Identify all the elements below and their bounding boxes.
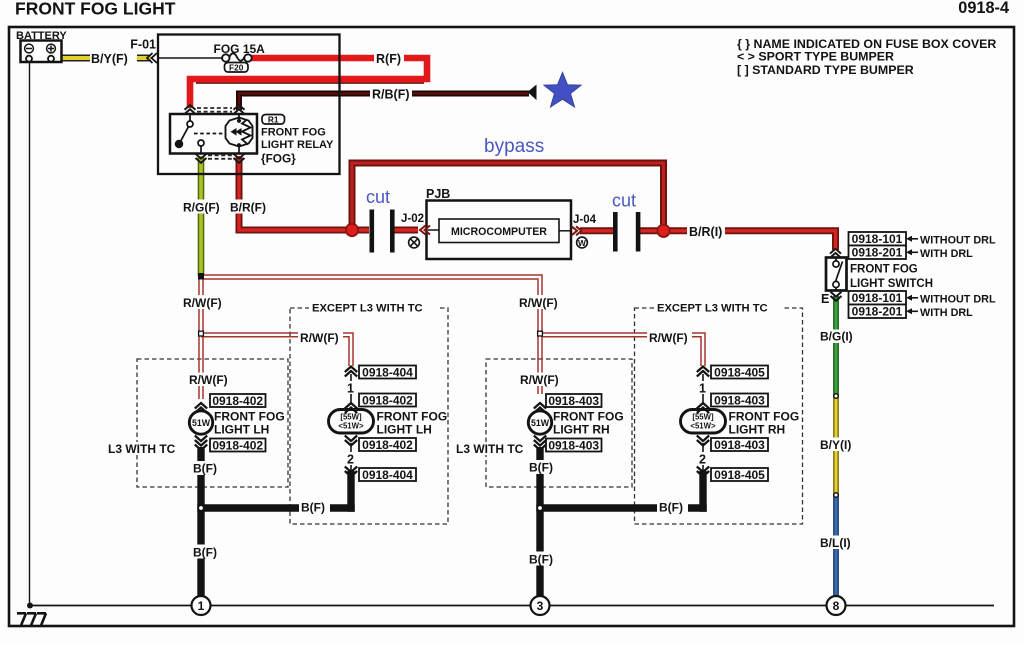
svg-text:FRONT FOG: FRONT FOG [214,410,285,424]
svg-text:cut: cut [366,187,390,207]
svg-text:1: 1 [347,382,354,396]
svg-text:B(F): B(F) [193,462,217,476]
svg-text:B(F): B(F) [193,546,217,560]
svg-text:0918-402: 0918-402 [212,394,263,408]
svg-text:2: 2 [699,453,706,467]
svg-text:< > SPORT TYPE BUMPER: < > SPORT TYPE BUMPER [737,50,894,64]
svg-text:BATTERY: BATTERY [16,30,67,42]
svg-text:FRONT FOG: FRONT FOG [553,410,624,424]
svg-text:J-04: J-04 [573,214,597,226]
svg-text:FRONT FOG LIGHT: FRONT FOG LIGHT [15,0,176,19]
svg-text:R/W(F): R/W(F) [649,331,688,345]
svg-text:LIGHT RH: LIGHT RH [553,423,610,437]
svg-text:B(F): B(F) [659,501,683,515]
svg-text:R1: R1 [268,114,279,124]
svg-text:0918-404: 0918-404 [362,365,413,379]
svg-text:0918-402: 0918-402 [362,438,413,452]
svg-text:LIGHT RH: LIGHT RH [729,423,786,437]
svg-text:0918-403: 0918-403 [714,393,765,407]
svg-text:8: 8 [833,599,840,613]
svg-text:EXCEPT L3 WITH TC: EXCEPT L3 WITH TC [312,303,423,315]
svg-text:LIGHT SWITCH: LIGHT SWITCH [850,278,933,290]
svg-text:[55W]: [55W] [340,413,362,422]
svg-text:cut: cut [612,191,636,211]
svg-text:<51W>: <51W> [690,422,716,431]
svg-text:FOG 15A: FOG 15A [214,42,266,56]
svg-text:LIGHT LH: LIGHT LH [214,423,269,437]
svg-text:WITH DRL: WITH DRL [920,248,973,260]
svg-text:[ ] STANDARD TYPE BUMPER: [ ] STANDARD TYPE BUMPER [737,63,914,77]
svg-text:WITHOUT DRL: WITHOUT DRL [920,235,996,247]
svg-text:R/W(F): R/W(F) [519,296,558,310]
svg-text:0918-405: 0918-405 [714,468,765,482]
svg-text:0918-403: 0918-403 [548,438,599,452]
svg-text:0918-402: 0918-402 [362,393,413,407]
svg-text:B/R(I): B/R(I) [689,225,722,239]
svg-text:B/Y(I): B/Y(I) [820,438,851,452]
svg-text:B(F): B(F) [529,553,553,567]
svg-text:0918-405: 0918-405 [714,365,765,379]
svg-text:[55W]: [55W] [692,413,714,422]
svg-text:0918-403: 0918-403 [548,394,599,408]
svg-text:L3 WITH TC: L3 WITH TC [456,442,524,456]
svg-text:R/W(F): R/W(F) [520,373,559,387]
svg-text:{FOG}: {FOG} [261,152,296,166]
svg-text:<51W>: <51W> [338,422,364,431]
svg-text:W: W [578,238,586,248]
svg-text:B/L(I): B/L(I) [820,536,851,550]
svg-text:J-02: J-02 [401,213,424,225]
svg-text:B(F): B(F) [301,501,325,515]
svg-text:L3 WITH TC: L3 WITH TC [108,442,176,456]
svg-text:0918-403: 0918-403 [714,438,765,452]
svg-text:F-01: F-01 [130,38,156,52]
svg-text:B/G(I): B/G(I) [820,330,853,344]
svg-text:51W: 51W [531,418,550,428]
svg-text:2: 2 [347,453,354,467]
svg-text:LIGHT RELAY: LIGHT RELAY [261,139,334,151]
svg-text:E: E [821,292,829,306]
svg-text:FRONT FOG: FRONT FOG [261,127,326,139]
svg-text:F20: F20 [229,62,244,72]
svg-text:0918-201: 0918-201 [852,246,903,260]
svg-text:R/W(F): R/W(F) [300,331,339,345]
svg-text:FRONT FOG: FRONT FOG [850,264,918,276]
svg-text:R(F): R(F) [376,52,401,66]
svg-text:1: 1 [198,599,205,613]
svg-text:0918-404: 0918-404 [362,468,413,482]
svg-text:B/Y(F): B/Y(F) [91,52,128,66]
svg-text:0918-4: 0918-4 [958,0,1009,17]
svg-text:R/W(F): R/W(F) [189,373,228,387]
svg-text:0918-402: 0918-402 [212,438,263,452]
svg-text:0918-201: 0918-201 [852,305,903,319]
svg-text:MICROCOMPUTER: MICROCOMPUTER [451,226,547,238]
svg-text:R/B(F): R/B(F) [372,88,410,102]
svg-text:WITHOUT DRL: WITHOUT DRL [920,294,996,306]
svg-text:PJB: PJB [426,187,450,201]
svg-text:B/R(F): B/R(F) [230,201,266,215]
svg-text:1: 1 [699,382,706,396]
svg-text:LIGHT LH: LIGHT LH [377,423,432,437]
svg-text:0918-101: 0918-101 [852,232,903,246]
svg-text:B(F): B(F) [529,461,553,475]
svg-text:WITH DRL: WITH DRL [920,307,973,319]
svg-text:R/W(F): R/W(F) [183,296,222,310]
svg-text:R/G(F): R/G(F) [183,201,220,215]
svg-text:0918-101: 0918-101 [852,291,903,305]
svg-text:FRONT FOG: FRONT FOG [377,410,448,424]
svg-text:EXCEPT L3 WITH TC: EXCEPT L3 WITH TC [657,303,768,315]
svg-text:3: 3 [537,599,544,613]
svg-text:bypass: bypass [484,136,544,157]
svg-text:FRONT FOG: FRONT FOG [729,410,800,424]
svg-text:51W: 51W [192,418,211,428]
